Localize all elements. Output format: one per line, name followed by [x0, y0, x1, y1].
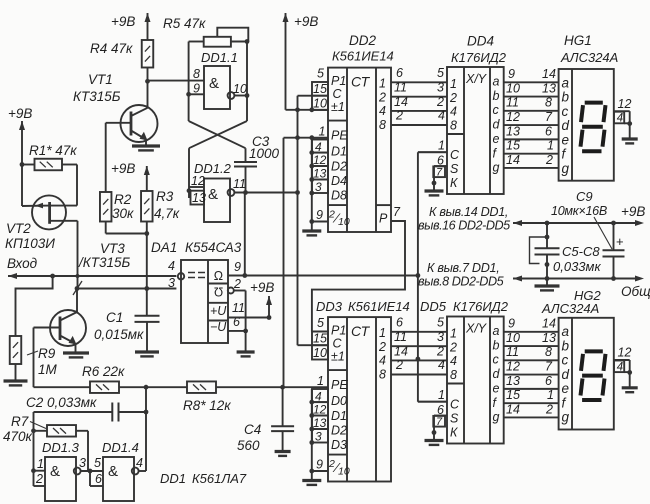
- svg-text:R9: R9: [38, 346, 56, 361]
- svg-text:13: 13: [313, 166, 327, 180]
- svg-text:VT2: VT2: [6, 221, 31, 236]
- svg-text:10: 10: [338, 466, 350, 478]
- svg-text:X/Y: X/Y: [465, 322, 488, 336]
- svg-text:1: 1: [450, 77, 457, 91]
- svg-text:b: b: [562, 90, 570, 105]
- svg-text:7: 7: [545, 110, 553, 124]
- svg-text:a: a: [562, 75, 570, 90]
- svg-text:13: 13: [506, 125, 520, 139]
- svg-text:7: 7: [545, 360, 553, 374]
- svg-text:2: 2: [35, 472, 43, 486]
- svg-text:D2: D2: [331, 424, 347, 438]
- svg-text:DD1: DD1: [160, 471, 186, 486]
- svg-text:8: 8: [545, 345, 552, 359]
- svg-text:К554СА3: К554СА3: [185, 240, 242, 255]
- svg-text:R6 22к: R6 22к: [82, 364, 125, 379]
- svg-text:15: 15: [313, 82, 327, 96]
- svg-text:6: 6: [396, 66, 403, 80]
- svg-text:R7: R7: [11, 414, 29, 429]
- svg-text:5: 5: [317, 67, 324, 81]
- svg-text:HG1: HG1: [564, 33, 592, 48]
- svg-text:1М: 1М: [38, 362, 58, 377]
- svg-text:2: 2: [545, 403, 553, 417]
- svg-text:15: 15: [506, 388, 520, 402]
- svg-text:10: 10: [313, 96, 327, 110]
- svg-text:1: 1: [319, 125, 326, 139]
- svg-text:0,033мк: 0,033мк: [553, 259, 601, 274]
- svg-text:2: 2: [328, 209, 335, 221]
- svg-text:К выв.14 DD1,: К выв.14 DD1,: [429, 205, 508, 219]
- svg-text:9: 9: [508, 67, 515, 81]
- svg-text:S: S: [450, 412, 459, 426]
- svg-text:P1: P1: [331, 324, 346, 338]
- svg-text:PE: PE: [331, 378, 348, 392]
- svg-text:9: 9: [316, 458, 323, 472]
- svg-text:d: d: [562, 367, 570, 382]
- svg-text:выв.16 DD2-DD5: выв.16 DD2-DD5: [418, 219, 511, 233]
- svg-text:12: 12: [506, 110, 520, 124]
- svg-text:2: 2: [395, 109, 403, 123]
- svg-text:d: d: [562, 118, 570, 133]
- svg-text:e: e: [562, 132, 570, 147]
- svg-text:11: 11: [394, 81, 407, 95]
- svg-text:8: 8: [379, 118, 386, 132]
- svg-text:DD1.1: DD1.1: [201, 50, 238, 65]
- svg-text:4: 4: [438, 358, 445, 372]
- svg-text:С2 0,033мк: С2 0,033мк: [26, 395, 97, 410]
- svg-text:10: 10: [506, 82, 520, 96]
- svg-text:1: 1: [438, 388, 445, 402]
- svg-text:S: S: [450, 162, 459, 176]
- svg-text:1000: 1000: [249, 146, 280, 161]
- svg-text:+9В: +9В: [111, 161, 135, 176]
- svg-text:a: a: [562, 324, 570, 339]
- svg-text:+9В: +9В: [250, 280, 274, 295]
- svg-text:К176ИД2: К176ИД2: [453, 299, 509, 314]
- svg-text:P1: P1: [331, 74, 346, 88]
- svg-text:D1: D1: [331, 409, 347, 423]
- svg-text:Ω: Ω: [214, 285, 223, 299]
- svg-text:С1: С1: [106, 310, 123, 325]
- svg-text:С9: С9: [576, 189, 593, 204]
- svg-text:c: c: [562, 104, 569, 119]
- svg-text:8: 8: [450, 368, 457, 382]
- svg-text:/КТ315Б: /КТ315Б: [78, 255, 130, 270]
- svg-text:15: 15: [313, 332, 327, 346]
- svg-text:a: a: [493, 324, 500, 338]
- svg-text:5: 5: [317, 316, 324, 330]
- svg-text:4: 4: [315, 140, 322, 154]
- svg-text:R4 47к: R4 47к: [90, 41, 133, 56]
- svg-text:4,7к: 4,7к: [154, 206, 180, 221]
- svg-text:12: 12: [191, 174, 205, 188]
- svg-text:12: 12: [313, 402, 327, 416]
- svg-text:g: g: [493, 161, 500, 175]
- svg-text:D2: D2: [331, 159, 347, 173]
- svg-text:g: g: [562, 161, 570, 176]
- svg-text:R2: R2: [114, 192, 132, 207]
- svg-text:Р: Р: [379, 212, 388, 226]
- svg-text:±1: ±1: [331, 100, 345, 114]
- svg-text:4: 4: [438, 109, 445, 123]
- svg-text:Вход: Вход: [7, 256, 38, 271]
- svg-text:C: C: [450, 148, 460, 162]
- svg-text:D4: D4: [331, 174, 347, 188]
- svg-text:5: 5: [94, 456, 101, 470]
- svg-text:DD1.4: DD1.4: [102, 440, 139, 455]
- svg-text:g: g: [493, 410, 500, 424]
- svg-text:1: 1: [317, 374, 324, 388]
- svg-text:DD3: DD3: [316, 299, 343, 314]
- svg-text:12: 12: [618, 346, 632, 360]
- svg-text:2: 2: [545, 153, 553, 167]
- svg-text:R8* 12к: R8* 12к: [183, 398, 231, 413]
- svg-text:К: К: [450, 426, 458, 440]
- svg-text:К561ИЕ14: К561ИЕ14: [348, 299, 410, 314]
- svg-text:6: 6: [396, 316, 403, 330]
- svg-text:К561ЛА7: К561ЛА7: [192, 471, 247, 486]
- svg-text:4: 4: [168, 259, 175, 273]
- svg-text:6: 6: [95, 472, 102, 486]
- svg-text:3: 3: [168, 276, 175, 290]
- svg-text:+9В: +9В: [621, 204, 645, 219]
- svg-text:13: 13: [542, 331, 556, 345]
- svg-text:К176ИД2: К176ИД2: [451, 50, 507, 65]
- svg-text:+9В: +9В: [294, 14, 318, 29]
- svg-text:R1* 47к: R1* 47к: [29, 143, 77, 158]
- svg-text:e: e: [493, 132, 500, 146]
- svg-text:2: 2: [449, 340, 457, 354]
- svg-text:15: 15: [506, 139, 520, 153]
- svg-text:К выв.7 DD1,: К выв.7 DD1,: [427, 261, 499, 275]
- svg-text:4: 4: [450, 105, 457, 119]
- svg-text:30к: 30к: [112, 206, 134, 221]
- svg-text:6: 6: [545, 374, 552, 388]
- svg-text:3: 3: [315, 180, 322, 194]
- svg-text:4: 4: [617, 361, 623, 373]
- svg-text:D1: D1: [331, 145, 347, 159]
- svg-text:d: d: [493, 367, 501, 381]
- svg-text:D0: D0: [331, 394, 347, 408]
- svg-text:DD5: DD5: [420, 299, 447, 314]
- svg-text:13: 13: [313, 416, 327, 430]
- svg-text:9: 9: [508, 317, 515, 331]
- svg-text:3: 3: [315, 429, 322, 443]
- svg-text:C: C: [333, 337, 343, 351]
- svg-text:470к: 470к: [3, 429, 33, 444]
- svg-text:4: 4: [450, 354, 457, 368]
- svg-text:14: 14: [394, 345, 408, 359]
- svg-text:DA1: DA1: [151, 240, 177, 255]
- svg-text:+9В: +9В: [8, 106, 32, 121]
- svg-text:2: 2: [449, 91, 457, 105]
- svg-text:c: c: [493, 103, 500, 117]
- svg-text:8: 8: [545, 96, 552, 110]
- svg-text:e: e: [493, 381, 500, 395]
- svg-text:8: 8: [193, 67, 200, 81]
- svg-text:&: &: [209, 75, 219, 92]
- svg-text:АЛС324А: АЛС324А: [560, 50, 618, 65]
- svg-text:g: g: [562, 410, 570, 425]
- svg-text:+: +: [616, 234, 624, 249]
- svg-text:Общ.: Общ.: [621, 284, 650, 299]
- svg-text:2: 2: [395, 358, 403, 372]
- svg-text:a: a: [493, 75, 500, 89]
- svg-text:Ω: Ω: [214, 269, 223, 283]
- svg-text:4: 4: [379, 104, 386, 118]
- svg-text:11: 11: [506, 345, 519, 359]
- svg-text:2: 2: [328, 458, 335, 470]
- svg-text:C: C: [450, 398, 460, 412]
- svg-text:+9В: +9В: [111, 14, 135, 29]
- svg-text:560: 560: [237, 438, 260, 453]
- svg-text:10: 10: [338, 216, 350, 228]
- svg-text:4: 4: [617, 113, 623, 125]
- svg-text:+U: +U: [210, 304, 227, 318]
- svg-text:К561ИЕ14: К561ИЕ14: [332, 49, 394, 64]
- svg-text:D8: D8: [331, 189, 347, 203]
- svg-text:X/Y: X/Y: [465, 72, 488, 86]
- svg-text:DD1.3: DD1.3: [42, 440, 80, 455]
- svg-text:±1: ±1: [331, 350, 345, 364]
- svg-text:1: 1: [547, 388, 554, 402]
- svg-text:10: 10: [313, 346, 327, 360]
- svg-text:14: 14: [506, 403, 520, 417]
- svg-text:13: 13: [506, 374, 520, 388]
- svg-text:8: 8: [379, 368, 386, 382]
- svg-text:14: 14: [542, 317, 556, 331]
- svg-text:1: 1: [379, 326, 386, 340]
- svg-text:7: 7: [436, 166, 443, 178]
- svg-text:12: 12: [506, 360, 520, 374]
- svg-text:7: 7: [393, 205, 401, 219]
- svg-text:4: 4: [315, 389, 322, 403]
- svg-text:C: C: [333, 87, 343, 101]
- svg-text:К: К: [450, 176, 458, 190]
- svg-text:5: 5: [437, 66, 444, 80]
- svg-text:АЛС324А: АЛС324А: [541, 301, 599, 316]
- svg-text:c: c: [562, 353, 569, 368]
- svg-text:R3: R3: [156, 189, 174, 204]
- svg-text:11: 11: [233, 177, 246, 191]
- svg-text:8: 8: [450, 118, 457, 132]
- svg-text:13: 13: [542, 82, 556, 96]
- svg-text:11: 11: [232, 301, 245, 315]
- svg-text:11: 11: [506, 96, 519, 110]
- svg-text:2: 2: [378, 340, 386, 354]
- svg-text:СТ: СТ: [351, 74, 371, 90]
- svg-text:4: 4: [136, 456, 143, 470]
- svg-text:14: 14: [394, 95, 408, 109]
- svg-text:b: b: [493, 89, 500, 103]
- svg-text:12: 12: [313, 153, 327, 167]
- svg-text:d: d: [493, 118, 501, 132]
- svg-text:6: 6: [545, 125, 552, 139]
- svg-text:4: 4: [379, 354, 386, 368]
- svg-text:КТ315Б: КТ315Б: [73, 89, 121, 104]
- svg-text:e: e: [562, 381, 570, 396]
- svg-text:D3: D3: [331, 438, 347, 452]
- svg-text:1: 1: [379, 77, 386, 91]
- svg-text:&: &: [50, 463, 60, 480]
- svg-text:R5 47к: R5 47к: [163, 16, 206, 31]
- svg-text:2: 2: [436, 95, 444, 109]
- svg-text:b: b: [493, 338, 500, 352]
- svg-text:КП103И: КП103И: [5, 236, 55, 251]
- svg-text:0,015мк: 0,015мк: [94, 327, 144, 342]
- svg-text:DD2: DD2: [349, 33, 376, 48]
- svg-text:3: 3: [437, 330, 444, 344]
- svg-text:1: 1: [37, 457, 44, 471]
- svg-text:&: &: [208, 186, 218, 203]
- svg-text:С4: С4: [244, 422, 261, 437]
- svg-text:11: 11: [394, 330, 407, 344]
- svg-text:b: b: [562, 338, 570, 353]
- svg-text:5: 5: [437, 316, 444, 330]
- svg-text:13: 13: [192, 191, 206, 205]
- svg-text:С5-С8: С5-С8: [562, 244, 600, 259]
- svg-text:1: 1: [450, 327, 457, 341]
- svg-text:1: 1: [547, 139, 554, 153]
- svg-text:14: 14: [506, 153, 520, 167]
- svg-text:3: 3: [437, 81, 444, 95]
- svg-text:VT1: VT1: [88, 72, 113, 87]
- svg-text:VT3: VT3: [100, 241, 125, 256]
- svg-text:9: 9: [316, 208, 323, 222]
- svg-text:&: &: [108, 463, 118, 480]
- svg-text:10: 10: [506, 331, 520, 345]
- svg-text:c: c: [493, 353, 500, 367]
- svg-text:10мк×16В: 10мк×16В: [551, 204, 607, 218]
- svg-text:−U: −U: [210, 320, 227, 334]
- svg-text:2: 2: [436, 345, 444, 359]
- svg-text:3: 3: [79, 456, 86, 470]
- svg-text:7: 7: [436, 416, 443, 428]
- svg-text:10: 10: [233, 82, 247, 96]
- svg-text:9: 9: [234, 260, 241, 274]
- svg-text:2: 2: [378, 90, 386, 104]
- svg-text:PE: PE: [331, 129, 348, 143]
- svg-text:СТ: СТ: [351, 323, 371, 339]
- svg-text:12: 12: [618, 97, 632, 111]
- svg-text:DD4: DD4: [467, 34, 494, 49]
- svg-text:14: 14: [542, 67, 556, 81]
- svg-text:1: 1: [438, 139, 445, 153]
- svg-text:выв.8 DD2-DD5: выв.8 DD2-DD5: [418, 275, 505, 289]
